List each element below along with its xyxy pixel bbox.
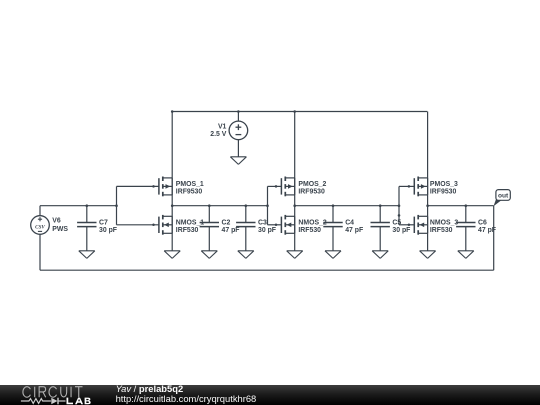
wire stage 3 PMOS gate	[399, 185, 414, 187]
wire stage 2 drain/source column	[294, 112, 296, 251]
wire node 3 (out)	[428, 205, 494, 207]
ground under C4	[325, 251, 341, 259]
ground under NMOS_1	[164, 251, 180, 259]
transistor PMOS_1 IRF9530	[152, 177, 204, 197]
wire stage 1 drain/source column	[171, 112, 173, 251]
capacitor C4 (47 pF)	[323, 206, 363, 251]
svg-text:http://circuitlab.com/cryqrqut: http://circuitlab.com/cryqrqutkhr68	[116, 393, 257, 404]
wire stage 1 gate vertical	[116, 186, 118, 224]
capacitor C5 (30 pF)	[371, 206, 411, 251]
capacitor C6 (47 pF)	[456, 206, 496, 251]
CircuitLab logo: LAB (drawn as paths)	[67, 398, 91, 405]
wire V6 bottom lead	[39, 234, 41, 270]
CircuitLab logo: CIRCUIT (drawn as paths)	[23, 387, 83, 398]
ground under NMOS_2	[287, 251, 303, 259]
wire VDD top rail	[172, 111, 427, 113]
wire stage 3 NMOS gate	[399, 224, 414, 226]
transistor NMOS_2 IRF530	[275, 215, 327, 235]
ground under C5	[372, 251, 388, 259]
wire bottom return	[40, 269, 494, 271]
wire stage 2 NMOS gate	[268, 224, 282, 226]
node junction dots	[86, 110, 468, 217]
capacitor C3 (30 pF)	[236, 206, 276, 251]
wire out feedback right vertical	[493, 206, 495, 271]
ground under C3	[238, 251, 254, 259]
wire stage 2 PMOS gate	[268, 185, 282, 187]
ground under C6	[458, 251, 474, 259]
wire stage 2 gate vertical	[267, 186, 269, 224]
CircuitLab logo: waveform + diode	[21, 398, 66, 405]
wire stage 1 NMOS gate	[117, 224, 159, 226]
transistor PMOS_2 IRF9530	[275, 177, 327, 197]
ground under NMOS_3	[420, 251, 436, 259]
ground under C2	[201, 251, 217, 259]
ground under V1	[230, 157, 246, 165]
wire node 2 (stage2 out)	[295, 205, 399, 207]
transistor PMOS_3 IRF9530	[408, 177, 458, 197]
ground under C7	[79, 251, 95, 259]
voltage source V6 PWS	[31, 206, 117, 235]
footer bar	[0, 385, 540, 405]
node out flag	[494, 190, 511, 207]
wire stage 3 drain/source column	[427, 112, 429, 251]
transistor NMOS_3 IRF530	[408, 215, 459, 235]
wire node 1 (stage1 out)	[172, 205, 267, 207]
capacitor C2 (47 pF)	[200, 206, 240, 251]
voltage source V1 2.5V	[210, 112, 247, 157]
wire stage 1 PMOS gate	[117, 185, 159, 187]
wire stage 3 gate vertical	[398, 186, 400, 224]
capacitor C7 (30 pF)	[77, 206, 117, 251]
transistor NMOS_1 IRF530	[152, 215, 204, 235]
